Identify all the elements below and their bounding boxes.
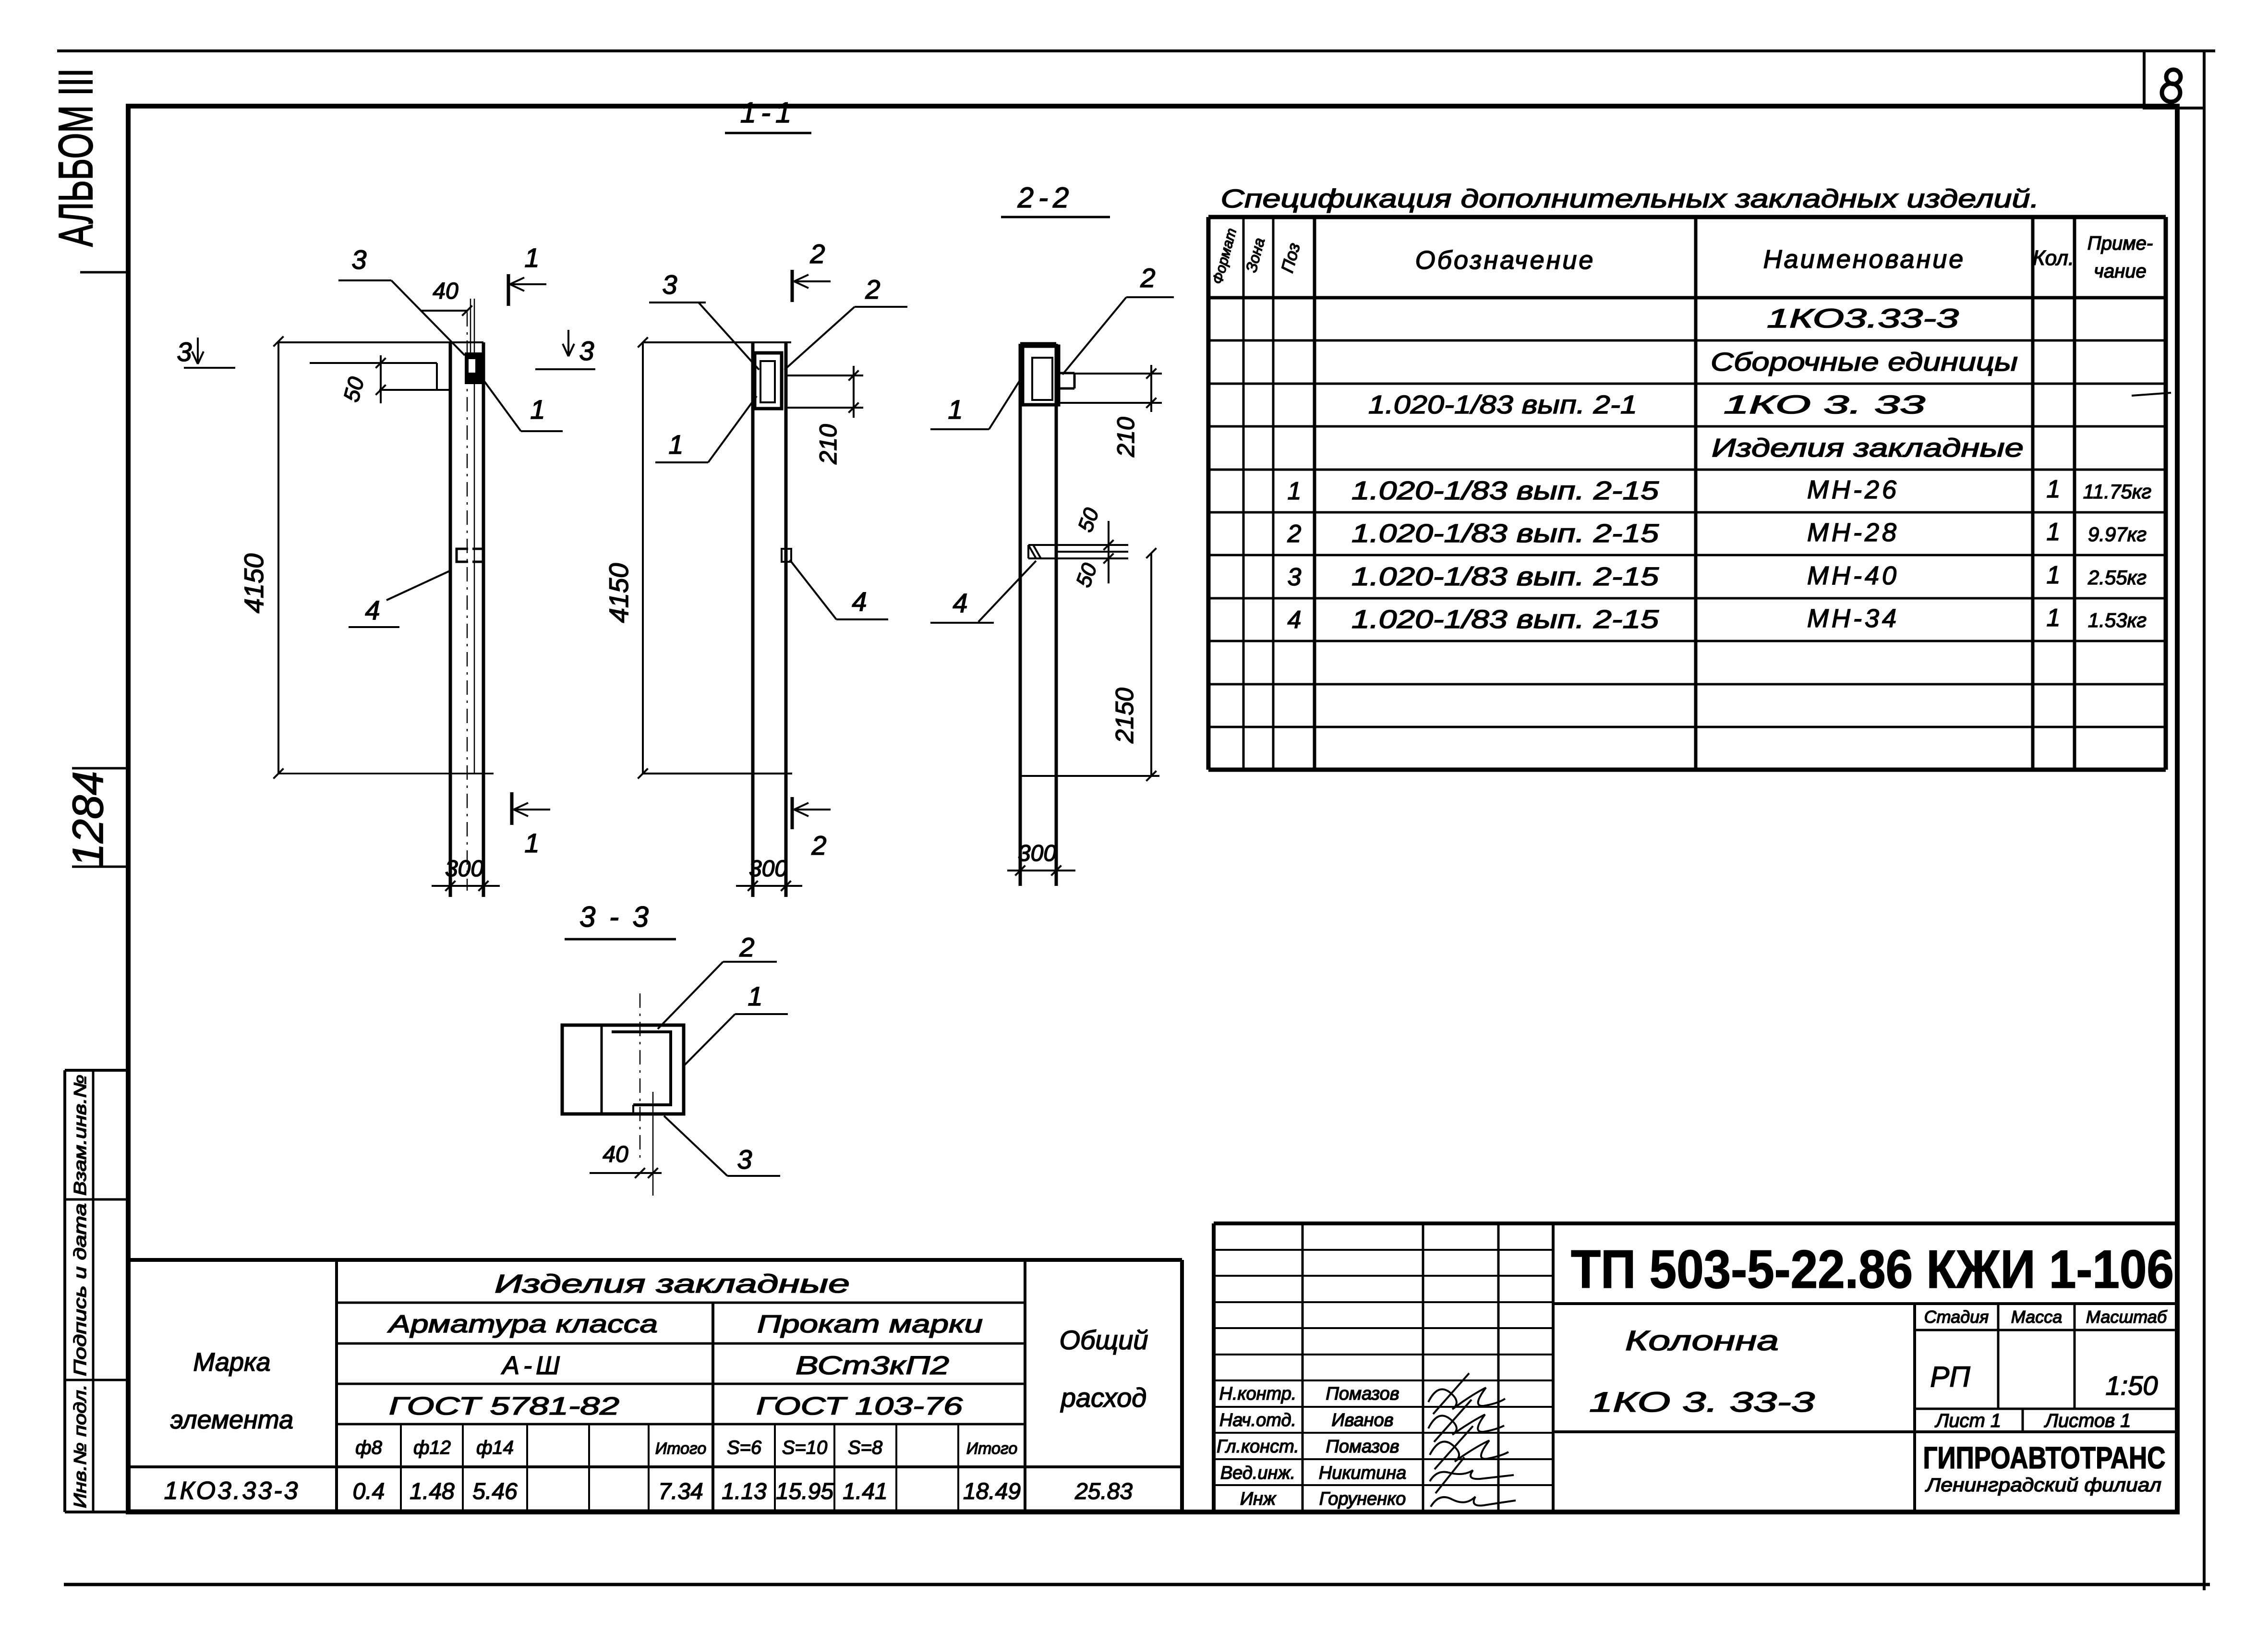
svg-text:4150: 4150 (603, 563, 634, 623)
svg-text:Ленинградский филиал: Ленинградский филиал (1925, 1475, 2161, 1496)
svg-text:1КО 3. 33-3: 1КО 3. 33-3 (1589, 1387, 1815, 1418)
svg-text:Лист 1: Лист 1 (1934, 1410, 2001, 1431)
svg-text:9.97кг: 9.97кг (2088, 523, 2147, 545)
svg-text:S=10: S=10 (782, 1437, 828, 1458)
svg-text:МН-26: МН-26 (1807, 475, 1899, 504)
svg-text:2: 2 (865, 274, 880, 304)
svg-text:1: 1 (2047, 561, 2061, 589)
svg-text:1.41: 1.41 (843, 1479, 887, 1504)
svg-text:Помазов: Помазов (1326, 1437, 1399, 1457)
svg-text:1: 1 (748, 981, 762, 1011)
svg-text:1.48: 1.48 (410, 1479, 455, 1504)
svg-text:4: 4 (852, 586, 867, 617)
svg-text:Подпись и дата: Подпись и дата (70, 1203, 90, 1376)
svg-text:1:50: 1:50 (2106, 1370, 2158, 1401)
svg-text:расход: расход (1060, 1382, 1147, 1413)
svg-text:15.95: 15.95 (776, 1479, 833, 1504)
svg-text:чание: чание (2094, 261, 2146, 282)
svg-text:1284: 1284 (64, 771, 112, 867)
svg-text:5.46: 5.46 (472, 1479, 518, 1504)
svg-text:210: 210 (1112, 417, 1139, 458)
svg-text:1.53кг: 1.53кг (2088, 609, 2147, 631)
svg-text:ГОСТ 5781-82: ГОСТ 5781-82 (389, 1392, 619, 1420)
svg-text:Обозначение: Обозначение (1415, 246, 1595, 275)
svg-text:300: 300 (445, 856, 483, 882)
svg-text:40: 40 (603, 1142, 628, 1167)
svg-text:Масштаб: Масштаб (2086, 1307, 2168, 1327)
svg-text:1.020-1/83 вып. 2-1: 1.020-1/83 вып. 2-1 (1368, 390, 1637, 419)
svg-text:40: 40 (433, 278, 458, 304)
svg-text:Изделия закладные: Изделия закладные (495, 1270, 850, 1298)
svg-text:Итого: Итого (655, 1439, 706, 1458)
svg-text:Взам.инв.№: Взам.инв.№ (70, 1075, 90, 1196)
svg-text:ТП 503-5-22.86 КЖИ 1-106: ТП 503-5-22.86 КЖИ 1-106 (1571, 1239, 2174, 1299)
svg-text:Изделия закладные: Изделия закладные (1712, 434, 2024, 462)
svg-text:2: 2 (739, 932, 754, 962)
svg-text:1: 1 (948, 394, 963, 424)
svg-text:S=8: S=8 (848, 1437, 883, 1458)
svg-text:2: 2 (811, 830, 826, 860)
svg-text:25.83: 25.83 (1074, 1479, 1133, 1504)
svg-text:1: 1 (2047, 518, 2061, 546)
svg-text:МН-34: МН-34 (1807, 604, 1899, 633)
svg-text:S=6: S=6 (727, 1437, 762, 1458)
svg-text:2-2: 2-2 (1017, 181, 1074, 214)
svg-text:Н.контр.: Н.контр. (1219, 1384, 1297, 1404)
svg-text:1: 1 (524, 242, 539, 273)
svg-text:3: 3 (351, 244, 366, 275)
svg-text:18.49: 18.49 (963, 1479, 1021, 1504)
svg-text:300: 300 (1018, 841, 1056, 866)
svg-text:2.55кг: 2.55кг (2087, 566, 2147, 589)
svg-text:1: 1 (668, 429, 683, 460)
svg-text:210: 210 (815, 424, 842, 465)
svg-text:ф12: ф12 (413, 1437, 451, 1458)
svg-text:Инв.№ подл.: Инв.№ подл. (70, 1384, 90, 1508)
svg-text:3: 3 (737, 1144, 752, 1174)
svg-text:2150: 2150 (1111, 688, 1139, 744)
svg-text:МН-40: МН-40 (1807, 561, 1899, 590)
svg-text:7.34: 7.34 (658, 1479, 703, 1504)
svg-text:1: 1 (530, 394, 545, 424)
svg-text:Сборочные единицы: Сборочные единицы (1711, 348, 2018, 376)
svg-text:4: 4 (365, 595, 380, 625)
svg-text:Иванов: Иванов (1331, 1410, 1393, 1430)
svg-text:А-Ш: А-Ш (501, 1351, 564, 1380)
svg-text:4: 4 (953, 588, 967, 618)
svg-text:Вед.инж.: Вед.инж. (1220, 1463, 1295, 1483)
svg-text:1: 1 (524, 828, 539, 858)
svg-text:3: 3 (579, 336, 594, 366)
svg-text:3 - 3: 3 - 3 (579, 901, 651, 933)
svg-text:Никитина: Никитина (1319, 1463, 1407, 1483)
svg-text:1.020-1/83 вып. 2-15: 1.020-1/83 вып. 2-15 (1351, 476, 1659, 505)
svg-text:ВСт3кП2: ВСт3кП2 (796, 1351, 949, 1380)
svg-text:1КО 3. 33: 1КО 3. 33 (1724, 390, 1925, 419)
svg-text:ф14: ф14 (476, 1437, 514, 1458)
svg-text:11.75кг: 11.75кг (2083, 480, 2152, 503)
svg-text:Гл.конст.: Гл.конст. (1217, 1437, 1299, 1457)
svg-text:Итого: Итого (966, 1439, 1017, 1458)
svg-text:Марка: Марка (193, 1348, 270, 1377)
svg-text:Масса: Масса (2011, 1307, 2062, 1327)
svg-text:1.13: 1.13 (722, 1479, 767, 1504)
svg-text:ф8: ф8 (355, 1437, 382, 1458)
svg-text:2: 2 (1287, 520, 1302, 548)
svg-text:Инж: Инж (1240, 1489, 1277, 1509)
svg-text:1.020-1/83 вып. 2-15: 1.020-1/83 вып. 2-15 (1351, 519, 1659, 548)
svg-text:Спецификация дополнительных: Спецификация дополнительных закладных из… (1221, 184, 2039, 213)
svg-text:Колонна: Колонна (1625, 1325, 1779, 1356)
svg-text:0.4: 0.4 (353, 1479, 385, 1504)
svg-text:Арматура класса: Арматура класса (387, 1310, 658, 1338)
svg-text:4: 4 (1288, 606, 1302, 634)
svg-text:МН-28: МН-28 (1807, 518, 1899, 547)
svg-text:2: 2 (809, 239, 825, 269)
svg-text:Кол.: Кол. (2033, 246, 2074, 270)
svg-text:ГОСТ 103-76: ГОСТ 103-76 (756, 1392, 963, 1420)
svg-text:4150: 4150 (239, 554, 269, 614)
svg-text:1: 1 (2047, 475, 2061, 503)
svg-text:3: 3 (662, 269, 677, 300)
svg-text:АЛЬБОМ III: АЛЬБОМ III (49, 68, 103, 247)
svg-text:3: 3 (1288, 563, 1302, 591)
svg-text:Прокат марки: Прокат марки (757, 1310, 983, 1338)
svg-text:2: 2 (1140, 263, 1155, 293)
svg-text:1.020-1/83 вып. 2-15: 1.020-1/83 вып. 2-15 (1351, 605, 1659, 634)
svg-text:Горуненко: Горуненко (1319, 1489, 1406, 1509)
svg-text:3: 3 (177, 337, 192, 367)
svg-text:Общий: Общий (1059, 1325, 1148, 1355)
svg-text:1.020-1/83 вып. 2-15: 1.020-1/83 вып. 2-15 (1351, 562, 1659, 591)
svg-text:Листов 1: Листов 1 (2043, 1410, 2131, 1431)
svg-text:Приме-: Приме- (2087, 233, 2153, 254)
svg-text:Наименование: Наименование (1763, 245, 1966, 274)
svg-text:1-1: 1-1 (740, 97, 796, 129)
svg-text:Помазов: Помазов (1326, 1384, 1399, 1404)
svg-text:Стадия: Стадия (1924, 1307, 1989, 1327)
svg-text:1КО3.33-3: 1КО3.33-3 (1767, 303, 1959, 333)
svg-text:300: 300 (749, 856, 787, 882)
svg-text:1: 1 (2047, 604, 2061, 632)
svg-text:1: 1 (1288, 477, 1302, 505)
svg-text:Нач.отд.: Нач.отд. (1219, 1410, 1296, 1430)
svg-text:РП: РП (1930, 1361, 1970, 1393)
svg-text:1КО3.33-3: 1КО3.33-3 (164, 1477, 300, 1505)
svg-text:элемента: элемента (170, 1405, 293, 1434)
svg-text:ГИПРОАВТОТРАНС: ГИПРОАВТОТРАНС (1923, 1440, 2166, 1475)
